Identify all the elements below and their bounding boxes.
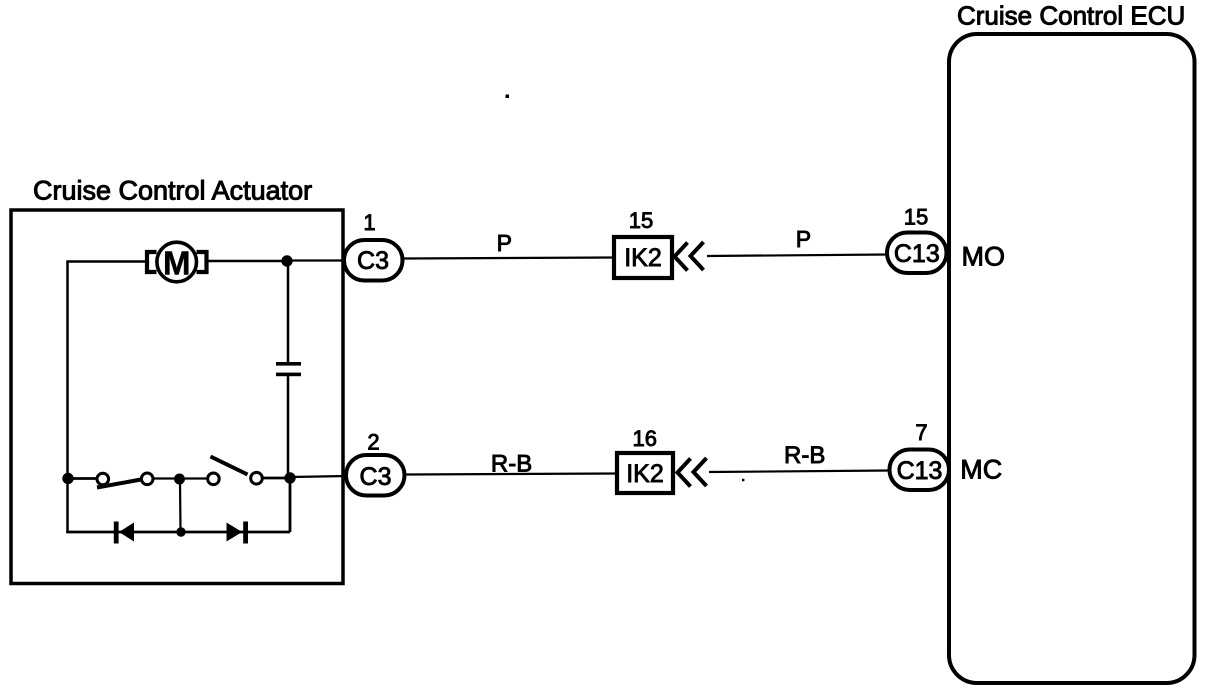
diode D1 [114,522,134,544]
connector chevrons at IK2 pin 15 [675,242,704,271]
wire: node A to connector C3 pin 1 [287,259,346,261]
wire: node A down to capacitor [287,261,290,362]
svg-text:R-B: R-B [491,451,532,478]
svg-text:Cruise Control Actuator: Cruise Control Actuator [33,176,312,206]
junction block IK2 pin 15 [614,237,672,278]
svg-text:Cruise Control ECU: Cruise Control ECU [957,1,1185,31]
svg-text:P: P [796,226,811,252]
wire: motor left branch [68,262,146,533]
connector chevrons at IK2 pin 16 [678,458,707,487]
wire: capacitor to node B [287,376,290,478]
motor M1 [147,242,207,282]
svg-text:C13: C13 [897,457,943,485]
wire: node B down to diode row [289,478,292,532]
wire: node C down to diode row [179,479,182,532]
ECU box U1 [949,34,1195,683]
connector C3 pin 1 [344,240,403,281]
node C junction dot [174,474,185,485]
svg-text:16: 16 [632,426,656,451]
node D junction dot on diode row [176,527,185,536]
svg-text:C13: C13 [894,240,940,268]
wire: C3 pin2 to IK2 pin16, label R-B [406,474,617,475]
svg-text:C3: C3 [357,247,389,275]
capacitor C1 [276,362,301,376]
connector C13 pin 15 [887,233,947,274]
node: left junction dot on switch row [62,473,73,484]
switch SW1 (closed) [97,473,153,488]
diode D2 [227,522,249,544]
svg-text:2: 2 [367,430,379,455]
junction block IK2 pin 16 [617,453,673,493]
wire: C3 pin1 to IK2 pin15, label P [404,258,614,259]
svg-text:IK2: IK2 [626,460,664,488]
svg-text:7: 7 [915,420,927,445]
svg-text:15: 15 [904,205,928,230]
svg-text:15: 15 [629,208,653,233]
wire: IK2 pin16 to C13 pin7, label R-B [709,471,890,473]
svg-text:MC: MC [960,455,1002,485]
svg-text:IK2: IK2 [624,244,662,272]
wire: diode row [68,531,291,532]
actuator box [11,210,343,584]
node B junction dot [284,472,295,483]
stray dot artifact [506,95,510,99]
wire: between SW1 and node C [154,477,175,479]
connector C3 pin 2 [346,455,405,496]
stray speck artifact [742,479,744,481]
svg-text:MO: MO [962,242,1006,272]
wire: node B to connector C3 pin 2 [290,476,348,477]
switch SW2 (open) [208,457,263,485]
wire: node C to SW2 [185,477,207,479]
wire: SW2 to node B [263,477,290,480]
wire: switch row left segment [68,477,96,480]
wire: IK2 pin15 to C13 pin15, label P [707,255,888,257]
svg-text:1: 1 [363,210,375,235]
svg-text:R-B: R-B [784,442,825,469]
svg-text:M: M [163,245,191,282]
wire: motor to node A [208,260,288,263]
node A junction dot [281,255,292,266]
svg-text:C3: C3 [360,463,392,491]
connector C13 pin 7 [890,450,950,491]
svg-text:P: P [497,230,512,256]
